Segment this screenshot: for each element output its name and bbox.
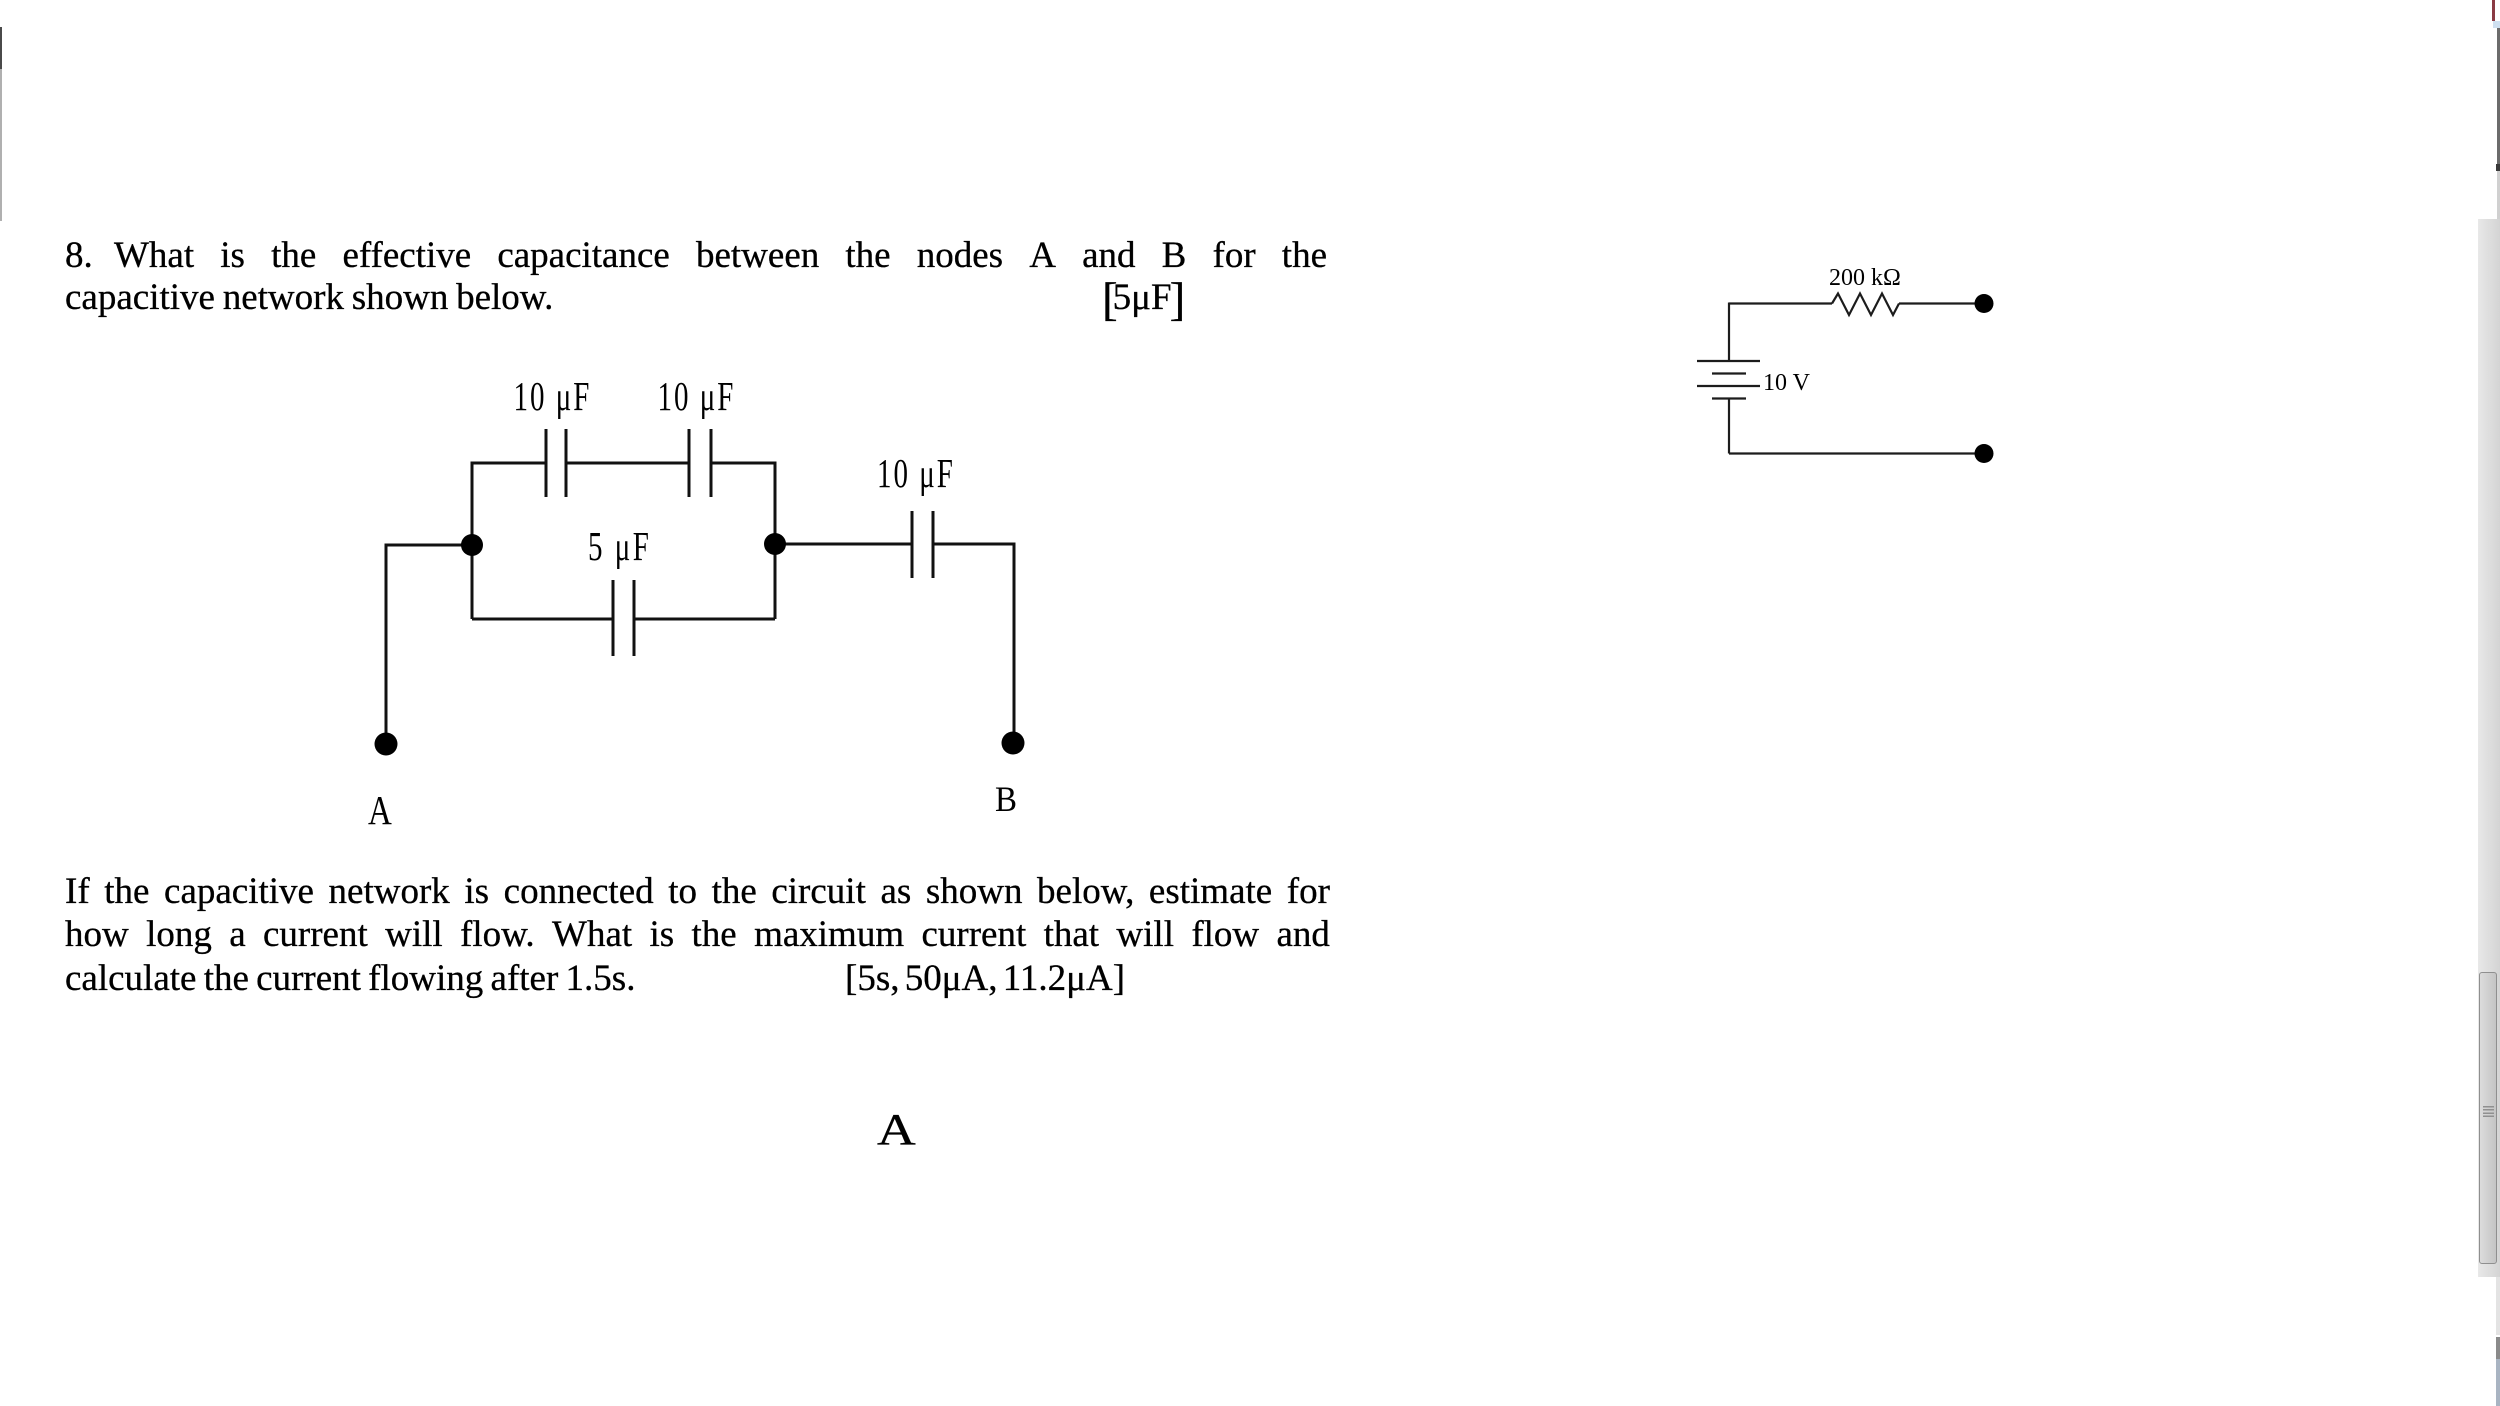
paragraph 1 line 1 — [65, 237, 93, 274]
left page-edge artifact dark — [0, 27, 2, 69]
right edge red strip — [2492, 0, 2495, 21]
paragraph 1 line 2 — [65, 279, 553, 316]
wire: network box top, right segment — [712, 462, 775, 465]
wire: RC bottom wire — [1729, 452, 1984, 454]
wire: RC top right segment — [1899, 302, 1984, 304]
scrollbar thumb grip — [2483, 1106, 2494, 1117]
junction node left — [461, 534, 483, 556]
right edge medium gray strip — [2496, 1337, 2500, 1359]
answer letter A — [877, 1108, 916, 1152]
wire: node B lead horizontal right of C3 — [934, 543, 1014, 546]
wire: network box top, left segment — [472, 462, 545, 465]
battery plate long top — [1697, 360, 1760, 362]
resistor 200k zigzag — [1832, 294, 1899, 316]
junction node right — [764, 533, 786, 555]
wire: node B lead horizontal left of C3 — [775, 543, 911, 546]
capacitor C1 10uF plates — [546, 429, 566, 497]
svg-text:10 μF: 10 μF — [514, 373, 592, 419]
battery plate long lower — [1697, 385, 1760, 387]
capacitor C3 10uF plates — [912, 511, 933, 578]
svg-text:10 V: 10 V — [1763, 370, 1811, 396]
scrollbar track — [2478, 219, 2500, 1277]
answer [5s, 50uA, 11.2uA] — [845, 960, 1125, 997]
right edge near-black strip — [2496, 164, 2500, 171]
capacitor C2 10uF plates — [689, 429, 711, 497]
battery plate short upper — [1712, 372, 1746, 374]
svg-text:200 kΩ: 200 kΩ — [1829, 265, 1901, 291]
wire: network box bottom, right segment — [635, 618, 775, 621]
svg-text:A: A — [368, 789, 392, 834]
wire: RC top left segment — [1729, 302, 1832, 304]
right edge dark gray strip — [2497, 28, 2500, 164]
right edge blue-gray strip — [2496, 1359, 2500, 1406]
paragraph 2 line 1 — [65, 873, 1330, 910]
right edge light strip upper — [2497, 171, 2500, 219]
terminal node B dot — [1002, 732, 1025, 755]
wire: network box top, middle segment — [567, 462, 688, 465]
battery plate short bottom — [1712, 397, 1746, 399]
scrollbar thumb — [2479, 972, 2497, 1264]
RC terminal dot top — [1975, 294, 1994, 313]
wire: network box left vertical — [471, 462, 474, 620]
right edge pale blue strip — [2493, 21, 2500, 28]
wire: network box bottom, left segment — [472, 618, 612, 621]
wire: node A lead horizontal — [386, 544, 472, 547]
svg-text:B: B — [995, 779, 1017, 820]
wire: node B lead vertical — [1013, 543, 1016, 744]
wire: battery top lead — [1728, 303, 1730, 362]
svg-text:10 μF: 10 μF — [657, 373, 735, 419]
answer [5uF] — [1102, 279, 1185, 316]
svg-text:5 μF: 5 μF — [588, 523, 651, 569]
svg-text:10 μF: 10 μF — [877, 450, 955, 496]
wire: network box right vertical — [774, 462, 777, 620]
right edge light strip lower — [2496, 1277, 2500, 1335]
paragraph 2 line 2 — [65, 916, 1330, 953]
paragraph 2 line 3 — [65, 960, 635, 997]
capacitor C5 5uF plates — [613, 580, 634, 656]
wire: node A lead vertical — [385, 544, 388, 745]
left page-edge artifact light — [0, 69, 2, 221]
wire: battery bottom lead — [1728, 399, 1730, 454]
RC terminal dot bottom — [1975, 444, 1994, 463]
terminal node A dot — [375, 733, 398, 756]
